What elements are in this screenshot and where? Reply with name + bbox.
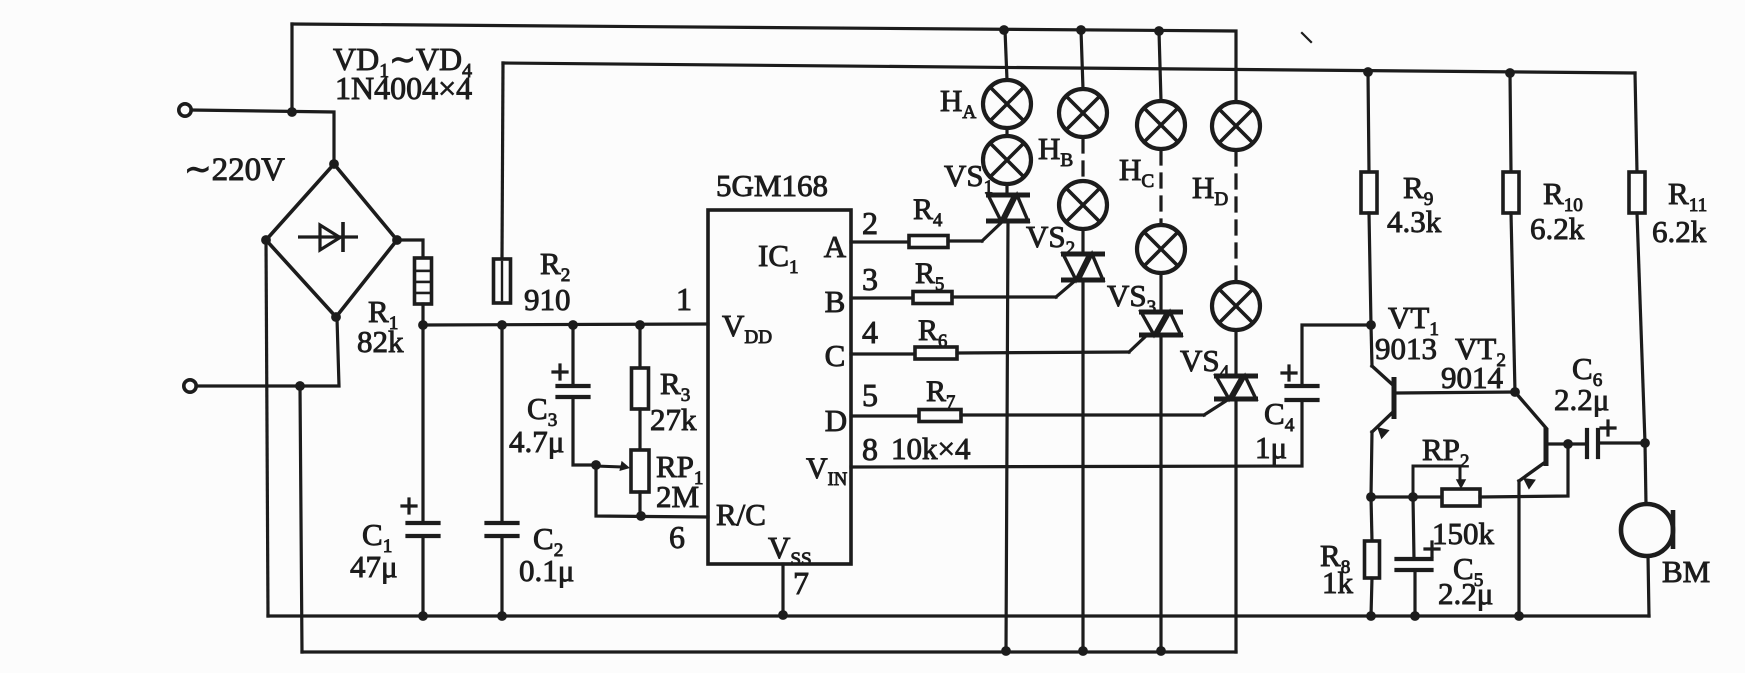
wire lamp return bus2 <box>302 650 1236 653</box>
wire pin4 <box>851 352 915 355</box>
triac VS1 <box>986 195 1030 221</box>
wire <box>957 352 1129 353</box>
wire <box>191 110 334 164</box>
wire dashed <box>1159 151 1162 225</box>
triac VS3 <box>1139 312 1183 335</box>
wire pin5 <box>851 414 919 417</box>
wire <box>1648 556 1649 616</box>
node bus2 col3 <box>1156 646 1166 656</box>
node C2 ground <box>497 611 507 621</box>
lamp HD upper <box>1212 102 1260 150</box>
svg-text:∼220V: ∼220V <box>184 152 285 188</box>
wire dashed <box>1234 152 1237 282</box>
svg-text:4: 4 <box>862 314 878 350</box>
wire <box>1234 330 1237 376</box>
node bridge right <box>392 235 402 245</box>
wire ground bus from bridge left <box>266 240 268 616</box>
wire <box>1371 497 1372 541</box>
wire <box>1369 213 1371 325</box>
wire pin8 VIN <box>851 400 1302 467</box>
svg-text:8: 8 <box>862 431 878 467</box>
resistor R2 <box>494 259 511 303</box>
node VDD-R1 <box>418 320 428 330</box>
wire <box>500 536 503 616</box>
svg-text:5GM168: 5GM168 <box>716 168 828 203</box>
capacitor C6 <box>1585 430 1589 457</box>
svg-text:A: A <box>824 229 847 264</box>
svg-text:10k×4: 10k×4 <box>891 431 971 466</box>
node R8 ground <box>1366 611 1376 621</box>
svg-text:47μ: 47μ <box>350 549 398 584</box>
wire <box>1568 442 1587 445</box>
node VT2 emitter ground <box>1514 611 1524 621</box>
transistor Q1 VT1 9013 <box>1371 325 1372 366</box>
node pin7 ground <box>778 610 788 620</box>
wire <box>638 325 641 368</box>
svg-text:1: 1 <box>676 281 692 317</box>
svg-text:6: 6 <box>669 519 685 555</box>
wire <box>421 536 424 616</box>
svg-text:150k: 150k <box>1432 516 1495 551</box>
wire <box>421 304 424 325</box>
node C5 ground <box>1410 611 1420 621</box>
wire <box>1159 31 1161 101</box>
RP2 wiper arrow <box>1413 466 1460 497</box>
svg-text:D: D <box>825 403 847 438</box>
bridge rectifier VD1-VD4 <box>266 164 397 317</box>
wire <box>1081 280 1084 651</box>
node RP1 bottom <box>636 511 646 521</box>
wire <box>638 492 641 516</box>
wire <box>1005 184 1008 195</box>
wire <box>1159 335 1162 651</box>
svg-text:82k: 82k <box>357 324 404 359</box>
svg-text:1N4004×4: 1N4004×4 <box>335 70 472 106</box>
node rail HA <box>999 25 1009 35</box>
lamp HA upper <box>983 80 1031 128</box>
wire <box>1413 570 1416 616</box>
wire <box>1510 73 1511 172</box>
svg-text:C: C <box>825 338 846 373</box>
svg-text:2M: 2M <box>656 479 699 514</box>
wire <box>1006 221 1008 651</box>
node bus2 col1 <box>1001 646 1011 656</box>
node R3 top <box>635 320 645 330</box>
wire <box>596 465 708 517</box>
node bus2 col2 <box>1078 646 1088 656</box>
resistor R6 <box>915 347 957 359</box>
wire <box>1005 128 1008 136</box>
svg-text:1k: 1k <box>1322 565 1354 600</box>
wire <box>1637 213 1645 443</box>
svg-text:4.3k: 4.3k <box>1387 204 1442 239</box>
wire second rail <box>503 63 1635 73</box>
wire <box>1159 273 1162 312</box>
wire pin2 <box>851 240 909 243</box>
wire VDD rail <box>423 324 708 325</box>
capacitor C2 <box>487 521 518 525</box>
potentiometer RP2 <box>1442 489 1480 506</box>
wire <box>196 318 339 386</box>
wire <box>1480 444 1568 497</box>
svg-text:0.1μ: 0.1μ <box>519 553 574 588</box>
wire ground bus1 <box>268 614 1649 617</box>
RP1 wiper arrow <box>596 466 621 467</box>
svg-text:7: 7 <box>793 565 809 601</box>
node rail HB <box>1076 25 1086 35</box>
wire <box>638 409 641 450</box>
node R2 bottom <box>497 320 507 330</box>
node rail HC <box>1154 26 1164 36</box>
node C3 top <box>568 320 578 330</box>
node RP2 left / C5 <box>1408 492 1418 502</box>
wire <box>571 325 574 386</box>
node VT2 collector / VT1 base <box>1510 387 1520 397</box>
transistor Q2 VT2 9014 <box>1515 392 1546 428</box>
wire <box>1371 495 1442 498</box>
lamp HC upper <box>1137 101 1185 149</box>
node C3 bottom / RP1 wiper <box>591 460 601 470</box>
svg-text:2.2μ: 2.2μ <box>1438 576 1493 611</box>
wire <box>1371 578 1372 616</box>
triac VS2 <box>1061 254 1105 280</box>
resistor R3 <box>632 368 649 409</box>
lamp HB lower <box>1059 181 1107 229</box>
svg-text:6.2k: 6.2k <box>1530 211 1585 246</box>
wire dashed <box>1081 139 1084 181</box>
svg-text:5: 5 <box>862 377 878 413</box>
triac VS4 <box>1214 376 1258 399</box>
wire <box>502 63 503 259</box>
terminal AC input 1 <box>179 104 191 116</box>
wire <box>952 295 1056 298</box>
resistor R4 <box>909 236 948 248</box>
wire <box>948 239 982 242</box>
terminal AC input 2 <box>184 380 196 392</box>
svg-text:B: B <box>825 284 846 319</box>
wire gate VS1 <box>982 222 1002 241</box>
svg-text:9014: 9014 <box>1441 360 1504 395</box>
wire <box>397 240 423 258</box>
potentiometer RP1 <box>631 450 649 492</box>
svg-text:27k: 27k <box>650 402 697 437</box>
resistor R5 <box>913 292 952 304</box>
svg-text:910: 910 <box>524 282 571 317</box>
wire <box>1511 213 1515 392</box>
node rail2 R9 <box>1363 67 1373 77</box>
node bridge top <box>329 159 339 169</box>
wire <box>1368 72 1369 172</box>
wire <box>1645 443 1646 504</box>
node AC2 junction <box>295 381 305 391</box>
node AC1 junction <box>287 107 297 117</box>
wire pin7 VSS to ground <box>781 564 784 615</box>
wire <box>1371 432 1372 497</box>
node C6 / R11 / BM <box>1640 438 1650 448</box>
wire <box>300 386 302 652</box>
capacitor C3 <box>558 384 589 388</box>
resistor R11 <box>1629 172 1645 213</box>
resistor R1 <box>415 258 432 304</box>
svg-text:2: 2 <box>862 205 878 241</box>
svg-text:6.2k: 6.2k <box>1652 214 1707 249</box>
svg-text:4.7μ: 4.7μ <box>509 424 564 459</box>
resistor R10 <box>1503 172 1519 213</box>
wire <box>573 397 596 465</box>
wire <box>1081 30 1083 89</box>
resistor R8 <box>1365 541 1380 578</box>
capacitor C1 <box>408 521 439 525</box>
wire gate VS3 <box>1129 335 1147 352</box>
wire top rail <box>292 24 1236 110</box>
wire <box>1598 441 1645 444</box>
resistor R9 <box>1361 172 1377 213</box>
lamp HA lower <box>983 136 1031 184</box>
op-amp U1 IC1 5GM168 box <box>708 210 851 564</box>
wire <box>1302 33 1311 42</box>
wire <box>500 325 503 523</box>
wire <box>1517 481 1520 616</box>
node rail2 R10 <box>1505 68 1515 78</box>
resistor R7 <box>919 410 961 422</box>
node bridge bottom <box>331 312 341 322</box>
lamp HB upper <box>1059 89 1107 137</box>
node VT2 base / C6 <box>1563 439 1573 449</box>
diode symbol inside bridge <box>298 222 358 252</box>
svg-text:2.2μ: 2.2μ <box>1554 382 1609 417</box>
wire pin3 <box>851 296 913 299</box>
svg-text:1μ: 1μ <box>1255 430 1287 465</box>
lamp HC lower <box>1137 225 1185 273</box>
wire <box>1413 497 1414 559</box>
node bridge left <box>261 235 271 245</box>
wire <box>1635 73 1637 172</box>
node VT1 emitter / RP2 / R8 <box>1366 492 1376 502</box>
lamp HD lower <box>1212 282 1260 330</box>
wire <box>1302 325 1371 386</box>
capacitor C4 <box>1287 384 1318 388</box>
wire <box>1005 30 1007 80</box>
wire gate VS4 <box>1204 399 1229 415</box>
wire <box>1234 399 1237 652</box>
node C1 ground <box>418 611 428 621</box>
svg-text:BM: BM <box>1662 554 1710 589</box>
wire <box>961 413 1204 416</box>
capacitor C5 <box>1397 557 1432 561</box>
wire <box>1081 229 1084 254</box>
microphone BM <box>1621 504 1673 556</box>
wire <box>421 325 424 523</box>
wire gate VS2 <box>1056 280 1076 297</box>
node VT1 collector / R9 / C4 <box>1366 320 1376 330</box>
svg-text:3: 3 <box>862 261 878 297</box>
svg-text:9013: 9013 <box>1375 331 1437 366</box>
wire <box>290 24 293 112</box>
svg-text:R/C: R/C <box>716 497 766 532</box>
